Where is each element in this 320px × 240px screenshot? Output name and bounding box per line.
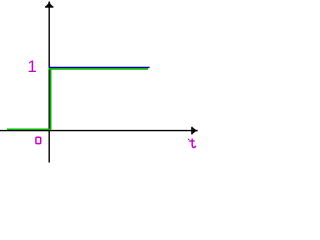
x-axis arrowhead — [191, 127, 197, 135]
label t — [189, 139, 196, 148]
step function: navy top edge of level-1 segment — [49, 66, 150, 68]
step function: green level-1 segment — [49, 68, 149, 70]
y-axis (vertical) — [48, 6, 50, 163]
svg-text:1: 1 — [27, 57, 36, 76]
step function: segment t<0 at level 0 — [7, 128, 51, 130]
step function: vertical jump at t=0 — [50, 68, 52, 130]
y-axis arrowhead — [45, 2, 53, 8]
label o (origin) — [36, 137, 41, 143]
stray dark pixel near t — [188, 139, 189, 140]
x-axis (horizontal) — [0, 130, 193, 132]
